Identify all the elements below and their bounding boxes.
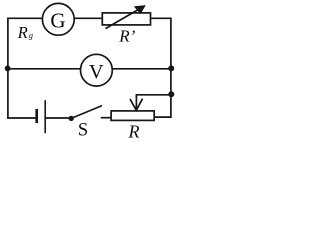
wire switch to rheostat R	[101, 117, 111, 119]
voltmeter U2 circle	[81, 54, 113, 86]
svg-text:S: S	[78, 120, 88, 140]
node left of voltmeter branch	[5, 66, 11, 72]
node right of voltmeter branch	[168, 65, 174, 71]
svg-text:R: R	[17, 23, 28, 42]
wire rheostat wiper to right rail	[136, 95, 171, 110]
resistor R' box	[102, 13, 150, 25]
svg-text:R’: R’	[118, 26, 135, 45]
wire middle: voltmeter branch left	[8, 68, 81, 70]
resistor R' arrow	[106, 8, 142, 29]
switch S pivot node	[69, 116, 74, 121]
battery BT1 long plate	[44, 100, 46, 133]
wire top: galvanometer to R' box	[74, 17, 101, 19]
wire top-right: R' box to right corner and down	[151, 18, 171, 117]
svg-text:R: R	[128, 122, 140, 141]
galvanometer U1 circle	[42, 3, 74, 35]
svg-text:G: G	[50, 9, 65, 33]
wire battery to switch	[45, 117, 69, 119]
switch S blade	[71, 106, 102, 119]
rheostat R wiper arrowhead	[130, 99, 143, 111]
battery BT1 short plate	[35, 109, 38, 123]
svg-text:V: V	[89, 61, 104, 83]
node wiper junction	[168, 91, 174, 97]
rheostat R box	[111, 111, 154, 121]
wire top-left: corner to galvanometer	[8, 18, 42, 118]
svg-text:g: g	[29, 30, 33, 40]
wire middle: voltmeter branch right	[112, 68, 171, 70]
